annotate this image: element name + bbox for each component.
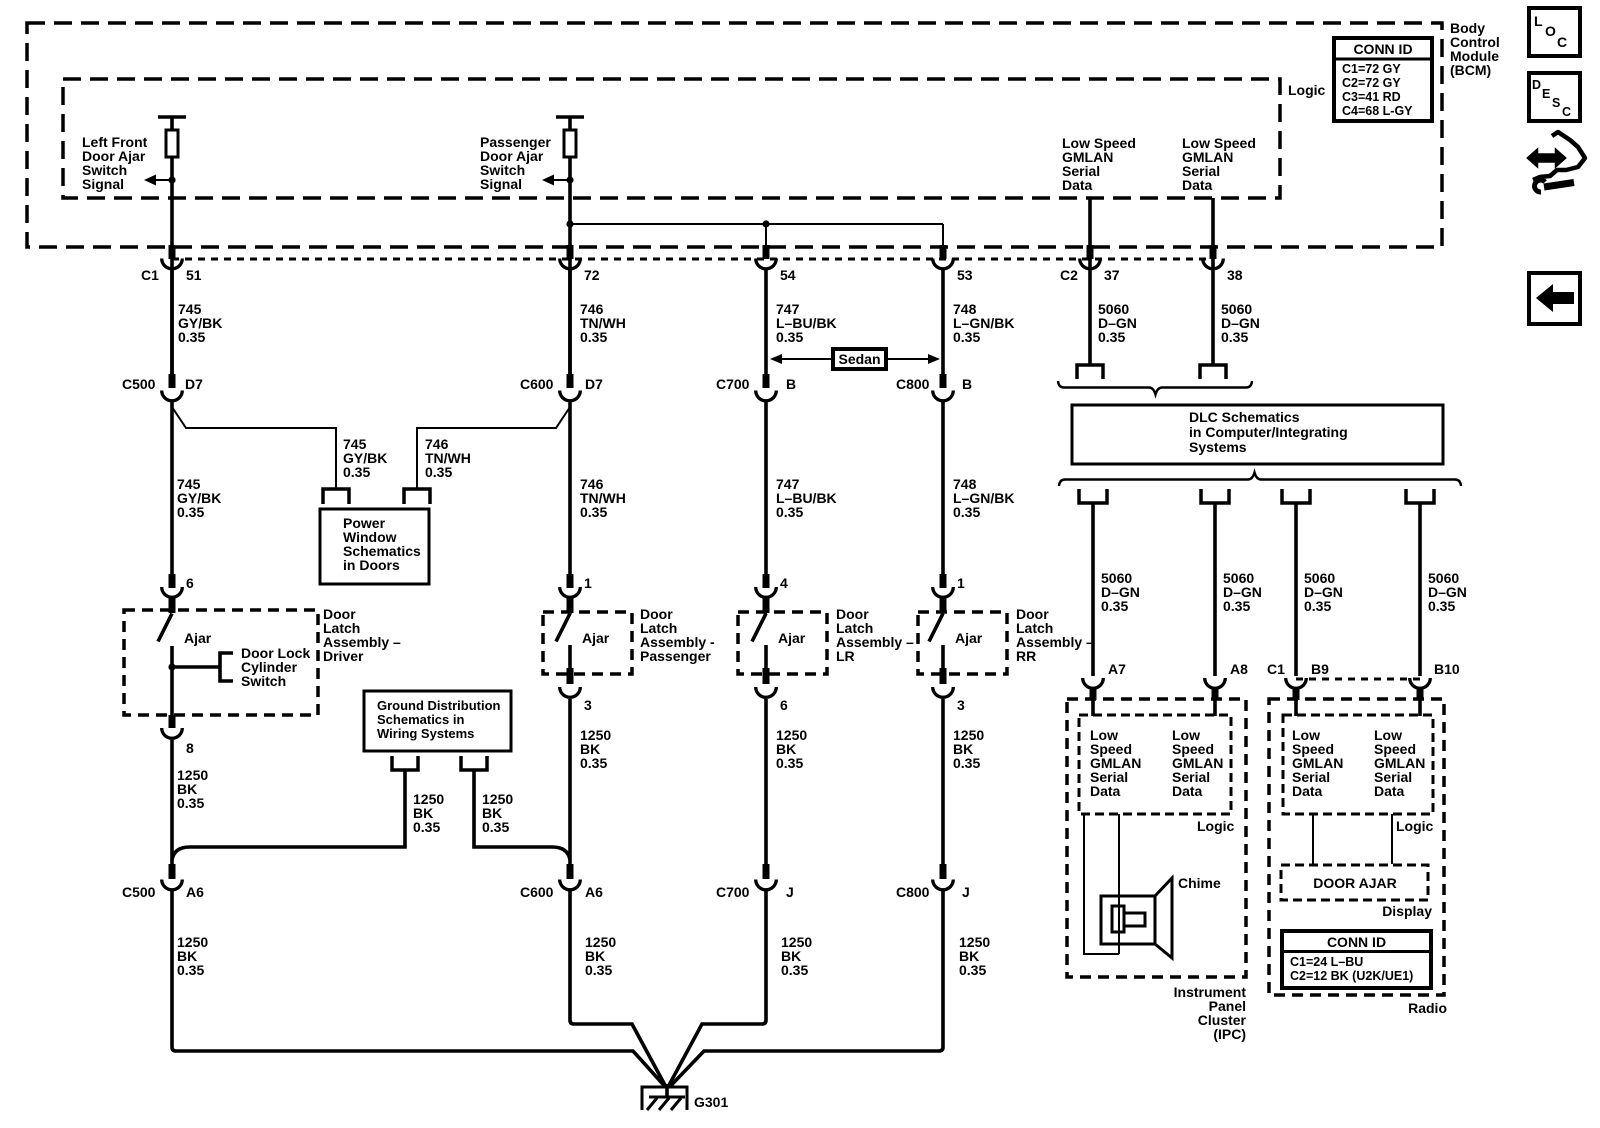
svg-text:C600: C600 [520, 376, 554, 392]
svg-text:D7: D7 [185, 376, 203, 392]
svg-text:Switch: Switch [241, 673, 286, 689]
svg-text:0.35: 0.35 [177, 962, 204, 978]
Sedan tag [770, 349, 940, 369]
svg-text:0.35: 0.35 [580, 755, 607, 771]
svg-text:Chime: Chime [1178, 875, 1221, 891]
svg-text:3: 3 [957, 697, 965, 713]
resistor (passenger door ajar pull-up) [556, 117, 584, 157]
svg-text:A7: A7 [1108, 661, 1126, 677]
pin A6 bottom row x=172 [169, 864, 176, 879]
svg-text:6: 6 [186, 575, 194, 591]
chime wiring [1084, 814, 1119, 954]
pin row4 x=1296 [1293, 687, 1300, 700]
wire 72 down [568, 268, 572, 374]
pin row4 x=1215 [1212, 687, 1219, 700]
Door Latch Assembly RR dashed box [918, 612, 1007, 674]
wire B9 into radio [1294, 697, 1298, 716]
svg-text:A6: A6 [585, 884, 603, 900]
svg-text:B: B [962, 376, 972, 392]
pin 6 row3 x=172 [169, 574, 176, 588]
svg-text:(IPC): (IPC) [1213, 1026, 1246, 1042]
svg-text:51: 51 [186, 267, 202, 283]
svg-text:Schematics in: Schematics in [377, 712, 464, 727]
svg-text:0.35: 0.35 [177, 504, 204, 520]
svg-text:C2=12 BK (U2K/UE1): C2=12 BK (U2K/UE1) [1290, 969, 1413, 983]
Power Window Schematics box [320, 509, 429, 584]
svg-text:0.35: 0.35 [1098, 329, 1125, 345]
wire 53 down [941, 268, 945, 374]
pin at x=766 connector row1 [763, 245, 770, 259]
svg-text:Radio: Radio [1408, 1000, 1447, 1016]
pin at x=1090 connector row1 [1087, 245, 1094, 259]
svg-text:B10: B10 [1434, 661, 1460, 677]
svg-text:Ajar: Ajar [582, 630, 610, 646]
svg-text:0.35: 0.35 [580, 504, 607, 520]
pin row2 x=766 [763, 374, 770, 388]
Door Latch Assembly LR dashed box [738, 612, 827, 674]
wire A7 into IPC [1091, 697, 1095, 716]
pin 1 row3 x=943 [940, 574, 947, 588]
svg-text:LR: LR [836, 648, 855, 664]
Radio outer dashed box [1269, 699, 1444, 995]
svg-text:B9: B9 [1311, 661, 1329, 677]
svg-text:C700: C700 [716, 884, 750, 900]
svg-text:4: 4 [780, 575, 788, 591]
back arrow nav icon [1529, 273, 1580, 324]
wire C600 to G301 [570, 890, 666, 1087]
svg-text:C600: C600 [520, 884, 554, 900]
wire logic to display right [1391, 814, 1393, 864]
wire LR 6 down to J [764, 699, 768, 864]
wire passenger 3 down to A6 [568, 699, 572, 864]
svg-text:Data: Data [1090, 783, 1121, 799]
svg-text:6: 6 [780, 697, 788, 713]
wire GMLAN 37 [1088, 198, 1092, 365]
pin J bottom row x=766 [763, 864, 770, 879]
wire driver 8 down to A6 [170, 740, 174, 864]
svg-text:8: 8 [186, 740, 194, 756]
Ground Distribution Schematics box [364, 691, 511, 751]
svg-text:B: B [786, 376, 796, 392]
svg-text:C1=72 GY: C1=72 GY [1342, 62, 1401, 76]
svg-text:0.35: 0.35 [1223, 598, 1250, 614]
passenger ajar switch [556, 597, 574, 670]
DLC Schematics box [1072, 405, 1443, 464]
pin at x=1213 connector row1 [1210, 245, 1217, 259]
svg-text:0.35: 0.35 [776, 504, 803, 520]
wire gnd dist left to C500 [172, 770, 405, 860]
pin row4 x=1420 [1417, 687, 1424, 700]
pin at x=943 connector row1 [940, 245, 947, 259]
svg-text:in Doors: in Doors [343, 557, 400, 573]
svg-text:0.35: 0.35 [178, 329, 205, 345]
svg-text:0.35: 0.35 [1101, 598, 1128, 614]
wire LF resistor to connector [170, 157, 174, 374]
svg-text:C700: C700 [716, 376, 750, 392]
Instrument Panel Cluster outer dashed box [1067, 699, 1246, 977]
wire C800 down [941, 400, 945, 575]
brace to DLC note [1058, 381, 1252, 395]
LF signal arrow [144, 175, 176, 186]
svg-text:CONN ID: CONN ID [1353, 41, 1412, 57]
DESC nav icon [1529, 73, 1580, 121]
svg-text:38: 38 [1227, 267, 1243, 283]
svg-text:0.35: 0.35 [482, 819, 509, 835]
svg-text:Data: Data [1292, 783, 1323, 799]
Logic dashed box [63, 79, 1280, 198]
terminal into power window box (left) [323, 489, 349, 504]
DLC terminal x=1420 [1406, 489, 1434, 503]
svg-text:C4=68 L-GY: C4=68 L-GY [1342, 104, 1413, 118]
svg-text:Logic: Logic [1396, 818, 1434, 834]
CONN ID table (radio) [1282, 931, 1431, 988]
wire passenger resistor to connector [568, 157, 572, 374]
svg-text:0.35: 0.35 [1221, 329, 1248, 345]
passenger bottom pin 3 [567, 668, 574, 684]
svg-text:E: E [1542, 87, 1550, 101]
svg-text:Display: Display [1382, 903, 1432, 919]
svg-text:O: O [1545, 23, 1556, 39]
service/adjust nav icon [1528, 132, 1585, 192]
svg-text:DOOR AJAR: DOOR AJAR [1313, 875, 1397, 891]
svg-text:1: 1 [957, 575, 965, 591]
wire logic to display left [1312, 814, 1314, 864]
pin J bottom row x=943 [940, 864, 947, 879]
door lock cylinder switch contact [168, 653, 233, 681]
DLC terminal x=1215 [1201, 489, 1229, 503]
svg-text:0.35: 0.35 [343, 464, 370, 480]
svg-text:C2: C2 [1060, 267, 1078, 283]
svg-text:Wiring Systems: Wiring Systems [377, 726, 474, 741]
svg-text:Logic: Logic [1197, 818, 1235, 834]
svg-text:Signal: Signal [480, 176, 522, 192]
svg-text:A8: A8 [1230, 661, 1248, 677]
LR bottom pin 6 [763, 668, 770, 684]
branch wire 745 to power window box [172, 407, 336, 489]
svg-text:L: L [1534, 13, 1543, 29]
svg-text:37: 37 [1104, 267, 1120, 283]
svg-text:C: C [1557, 34, 1567, 50]
svg-text:RR: RR [1016, 648, 1036, 664]
svg-text:in Computer/Integrating: in Computer/Integrating [1189, 424, 1348, 440]
radio logic dashed box [1283, 715, 1433, 814]
svg-text:0.35: 0.35 [953, 329, 980, 345]
svg-text:C2=72 GY: C2=72 GY [1342, 76, 1401, 90]
wire GMLAN 38 [1211, 198, 1215, 365]
svg-text:0.35: 0.35 [953, 755, 980, 771]
DLC terminal x=1296 [1282, 489, 1310, 503]
wire C500 down [170, 400, 174, 575]
wire A8 into IPC [1213, 697, 1217, 716]
svg-text:Sedan: Sedan [838, 351, 880, 367]
pin 4 row3 x=766 [763, 574, 770, 588]
chime speaker [1101, 878, 1172, 958]
wire link 72-54-53 [570, 224, 943, 248]
terminal into power window box (right) [404, 489, 430, 504]
ground dist terminal left [392, 756, 418, 770]
svg-text:Ajar: Ajar [778, 630, 806, 646]
svg-text:0.35: 0.35 [585, 962, 612, 978]
svg-text:J: J [962, 884, 970, 900]
RR bottom pin 3 [940, 668, 947, 684]
wire DLC x=1093 down [1091, 503, 1095, 676]
DOOR AJAR display box [1281, 865, 1428, 900]
pin row2 x=570 [567, 374, 574, 388]
branch wire 746 to power window box [417, 407, 570, 489]
ground dist terminal right [461, 756, 487, 770]
svg-text:0.35: 0.35 [177, 795, 204, 811]
wire gnd dist right to C600 [474, 770, 570, 860]
svg-text:0.35: 0.35 [781, 962, 808, 978]
CONN ID table (BCM) [1334, 38, 1432, 121]
svg-text:Driver: Driver [323, 648, 364, 664]
svg-text:0.35: 0.35 [959, 962, 986, 978]
svg-text:C1=24 L–BU: C1=24 L–BU [1290, 955, 1363, 969]
LOC nav icon [1529, 8, 1580, 56]
wire C800 to G301 [670, 890, 944, 1087]
wire DLC x=1215 down [1213, 503, 1217, 676]
svg-text:DLC Schematics: DLC Schematics [1189, 409, 1300, 425]
Body Control Module outer dashed box [27, 23, 1442, 247]
svg-text:0.35: 0.35 [953, 504, 980, 520]
terminal 38 [1200, 365, 1226, 379]
svg-text:Data: Data [1062, 177, 1093, 193]
ground G301 [642, 1084, 687, 1110]
svg-text:Systems: Systems [1189, 439, 1247, 455]
svg-text:J: J [786, 884, 794, 900]
pin row2 x=943 [940, 374, 947, 388]
connector C1/C2 dotted line [172, 258, 1213, 261]
svg-text:C500: C500 [122, 884, 156, 900]
pin at x=172 connector row1 [169, 245, 176, 259]
svg-text:0.35: 0.35 [413, 819, 440, 835]
wire B10 into radio [1418, 697, 1422, 716]
svg-text:Signal: Signal [82, 176, 124, 192]
svg-text:72: 72 [584, 267, 600, 283]
DLC terminal x=1093 [1079, 489, 1107, 503]
svg-text:D: D [1532, 78, 1541, 92]
Door Latch Assembly Driver dashed box [124, 610, 318, 715]
junction dot node 54 [762, 220, 769, 227]
svg-text:Passenger: Passenger [640, 648, 711, 664]
wire C700 down [764, 400, 768, 575]
pin row4 x=1093 [1090, 687, 1097, 700]
wire DLC x=1296 down [1294, 503, 1298, 676]
svg-text:D7: D7 [585, 376, 603, 392]
svg-text:C: C [1562, 105, 1571, 119]
svg-text:0.35: 0.35 [776, 755, 803, 771]
pin 1 row3 x=570 [567, 574, 574, 588]
radio connector C1 dotted line [1296, 678, 1420, 681]
resistor (LF door ajar pull-up) [158, 117, 186, 157]
svg-text:Ground Distribution: Ground Distribution [377, 698, 501, 713]
driver ajar switch [158, 597, 176, 715]
svg-text:3: 3 [584, 697, 592, 713]
svg-text:1: 1 [584, 575, 592, 591]
svg-text:54: 54 [780, 267, 796, 283]
svg-text:CONN ID: CONN ID [1327, 934, 1386, 950]
brace below DLC box [1059, 473, 1461, 487]
svg-text:C500: C500 [122, 376, 156, 392]
IPC logic dashed box [1079, 715, 1231, 814]
svg-text:0.35: 0.35 [1304, 598, 1331, 614]
pin A6 bottom row x=570 [567, 864, 574, 879]
wire RR 3 down to J [941, 699, 945, 864]
svg-text:Ajar: Ajar [184, 630, 212, 646]
wire C500 to G301 [172, 890, 666, 1087]
LR ajar switch [752, 597, 770, 670]
svg-text:C800: C800 [896, 884, 930, 900]
svg-text:(BCM): (BCM) [1450, 62, 1491, 78]
svg-text:Data: Data [1182, 177, 1213, 193]
svg-text:0.35: 0.35 [776, 329, 803, 345]
svg-text:0.35: 0.35 [425, 464, 452, 480]
svg-text:Ajar: Ajar [955, 630, 983, 646]
RR ajar switch [929, 597, 947, 670]
svg-text:0.35: 0.35 [580, 329, 607, 345]
wire 51 down [170, 268, 174, 374]
svg-text:Logic: Logic [1288, 82, 1326, 98]
wire DLC x=1420 down [1418, 503, 1422, 676]
driver bottom pin 8 [169, 715, 176, 728]
svg-text:Data: Data [1172, 783, 1203, 799]
passenger signal arrow [542, 175, 574, 186]
wire 54 down [764, 268, 768, 374]
svg-text:C1: C1 [141, 267, 159, 283]
terminal 37 [1077, 365, 1103, 379]
svg-text:C3=41 RD: C3=41 RD [1342, 90, 1401, 104]
wire C700 to G301 [668, 890, 766, 1087]
svg-text:A6: A6 [186, 884, 204, 900]
wire C600 down [568, 400, 572, 575]
svg-text:Data: Data [1374, 783, 1405, 799]
svg-text:C800: C800 [896, 376, 930, 392]
Door Latch Assembly Passenger dashed box [543, 612, 632, 674]
svg-text:0.35: 0.35 [1428, 598, 1455, 614]
pin at x=570 connector row1 [567, 245, 574, 259]
svg-text:S: S [1552, 96, 1560, 110]
svg-text:C1: C1 [1267, 661, 1285, 677]
svg-text:53: 53 [957, 267, 973, 283]
pin row2 x=172 [169, 374, 176, 388]
junction dot node 72 [566, 220, 573, 227]
svg-text:G301: G301 [694, 1094, 728, 1110]
